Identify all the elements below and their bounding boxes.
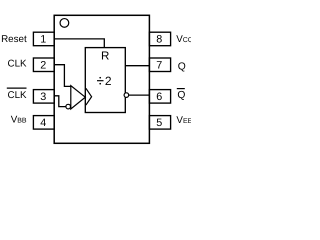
svg-text:CLK: CLK (8, 58, 28, 69)
svg-text:2: 2 (40, 60, 46, 72)
svg-text:5: 5 (156, 117, 162, 129)
svg-text:7: 7 (156, 60, 162, 72)
svg-text:Reset: Reset (1, 34, 27, 45)
svg-text:R: R (101, 50, 109, 63)
svg-text:Q: Q (178, 62, 186, 73)
svg-text:1: 1 (40, 34, 46, 46)
svg-text:Q: Q (177, 90, 185, 101)
svg-text:6: 6 (156, 91, 162, 103)
svg-text:CLK: CLK (8, 90, 28, 101)
svg-text:4: 4 (40, 117, 46, 129)
svg-text:8: 8 (156, 34, 162, 46)
svg-text:3: 3 (40, 91, 46, 103)
svg-text:2: 2 (105, 74, 112, 88)
